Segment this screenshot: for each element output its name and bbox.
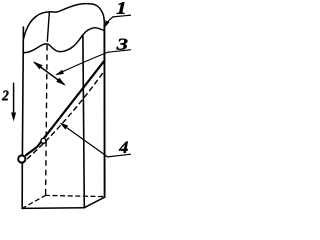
break line: right face wavy <box>83 28 104 35</box>
feed arrow head (2) <box>11 113 16 122</box>
bar front-left edge <box>22 27 23 208</box>
break line: front face wavy <box>23 35 83 53</box>
feed arrow shaft (2) <box>13 83 15 113</box>
oscillation double arrow shaft <box>35 63 65 85</box>
bar back-left edge (hidden, dashed) <box>46 46 48 196</box>
underline of 3 <box>108 50 131 53</box>
break line: top rim <box>24 4 105 39</box>
bar back-right edge <box>103 24 105 197</box>
underline of 1 <box>113 15 131 17</box>
oscillation arrow head NW <box>33 61 43 69</box>
oscillation arrow head SE <box>56 78 66 86</box>
cutting wire (thick diagonal) <box>26 61 105 156</box>
arrow head of leader 3 <box>55 70 64 76</box>
label 1 <box>117 2 125 14</box>
arrow head of leader 1 <box>104 20 109 28</box>
label 4 <box>119 142 128 153</box>
bottom right edge <box>84 197 104 208</box>
small circle on back edge <box>41 138 46 143</box>
cut trace (dashed diagonal) <box>27 71 104 159</box>
arrow head of leader 4 <box>60 123 68 130</box>
label 3 <box>117 39 128 50</box>
leader line of 1 <box>106 17 113 25</box>
guide pulley circle on left edge <box>18 155 25 162</box>
bar front-right edge <box>83 35 84 207</box>
bottom hidden edge to back-left corner (dashed) <box>22 195 45 208</box>
label 2 <box>2 91 9 101</box>
leader line of 3 <box>57 52 108 74</box>
leader line of 4 <box>62 124 108 157</box>
bar back-left edge (visible top) <box>47 12 49 41</box>
underline of 4 <box>107 154 131 157</box>
bottom hidden back edge (dashed) <box>45 195 104 196</box>
bottom front edge <box>22 207 84 210</box>
